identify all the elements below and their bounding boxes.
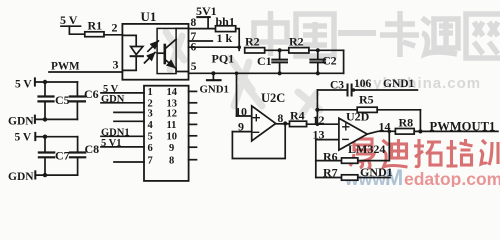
svg-text:106: 106 xyxy=(354,78,372,90)
svg-text:3: 3 xyxy=(148,109,153,120)
svg-text:R2: R2 xyxy=(289,35,304,49)
svg-text:PWMOUT1: PWMOUT1 xyxy=(430,120,496,134)
svg-text:5V1: 5V1 xyxy=(196,4,217,18)
svg-text:10: 10 xyxy=(235,105,247,119)
svg-text:6: 6 xyxy=(191,42,197,54)
svg-text:C7: C7 xyxy=(55,149,70,163)
svg-text:13: 13 xyxy=(313,128,325,142)
svg-text:14: 14 xyxy=(379,120,391,134)
svg-text:R4: R4 xyxy=(290,109,305,123)
svg-text:C2: C2 xyxy=(322,54,337,68)
svg-text:1 k: 1 k xyxy=(217,31,233,45)
svg-text:12: 12 xyxy=(167,109,178,120)
svg-text:12: 12 xyxy=(313,113,325,127)
svg-text:C5: C5 xyxy=(55,93,70,107)
svg-text:edatop.com: edatop.com xyxy=(404,169,500,187)
svg-text:C1: C1 xyxy=(257,54,272,68)
svg-text:GDN: GDN xyxy=(8,171,34,183)
svg-text:C3: C3 xyxy=(330,80,344,92)
svg-text:11: 11 xyxy=(167,120,177,131)
svg-text:R8: R8 xyxy=(399,116,414,130)
svg-text:R5: R5 xyxy=(359,93,374,107)
svg-text:C6: C6 xyxy=(84,87,99,101)
svg-text:1: 1 xyxy=(148,87,153,98)
svg-text:5: 5 xyxy=(191,61,197,73)
svg-text:bh1: bh1 xyxy=(216,15,235,29)
svg-text:U2C: U2C xyxy=(261,91,285,105)
svg-text:14: 14 xyxy=(167,87,178,98)
svg-text:9: 9 xyxy=(238,120,244,134)
svg-text:5 V1: 5 V1 xyxy=(101,138,122,149)
svg-text:8: 8 xyxy=(191,17,197,29)
svg-text:PWM: PWM xyxy=(51,60,80,72)
svg-text:GND1: GND1 xyxy=(200,84,229,96)
svg-text:8: 8 xyxy=(169,155,174,166)
svg-text:7: 7 xyxy=(148,155,153,166)
svg-text:R6: R6 xyxy=(323,150,338,164)
svg-text:C8: C8 xyxy=(85,142,100,156)
svg-text:R7: R7 xyxy=(323,166,338,180)
svg-text:R2: R2 xyxy=(245,35,260,49)
svg-text:GDN: GDN xyxy=(101,94,125,105)
svg-text:5 V: 5 V xyxy=(15,79,32,91)
svg-text:2: 2 xyxy=(112,21,118,35)
svg-text:5 V: 5 V xyxy=(15,132,32,144)
svg-text:5 V: 5 V xyxy=(60,13,78,27)
svg-text:U2D: U2D xyxy=(346,110,370,124)
svg-text:4: 4 xyxy=(148,120,154,131)
svg-text:3: 3 xyxy=(113,58,119,72)
svg-text:LM324: LM324 xyxy=(348,142,385,156)
svg-text:8: 8 xyxy=(278,113,284,125)
svg-text:R1: R1 xyxy=(88,19,103,33)
svg-text:GDN1: GDN1 xyxy=(101,128,130,139)
svg-text:5: 5 xyxy=(148,131,153,142)
svg-text:GND1: GND1 xyxy=(360,165,393,179)
svg-text:9: 9 xyxy=(169,143,174,154)
svg-text:6: 6 xyxy=(148,143,153,154)
svg-text:10: 10 xyxy=(167,131,178,142)
svg-text:GND1: GND1 xyxy=(383,78,415,90)
svg-text:U1: U1 xyxy=(141,9,157,24)
svg-text:GDN: GDN xyxy=(8,116,34,128)
svg-text:PQ1: PQ1 xyxy=(212,52,235,66)
